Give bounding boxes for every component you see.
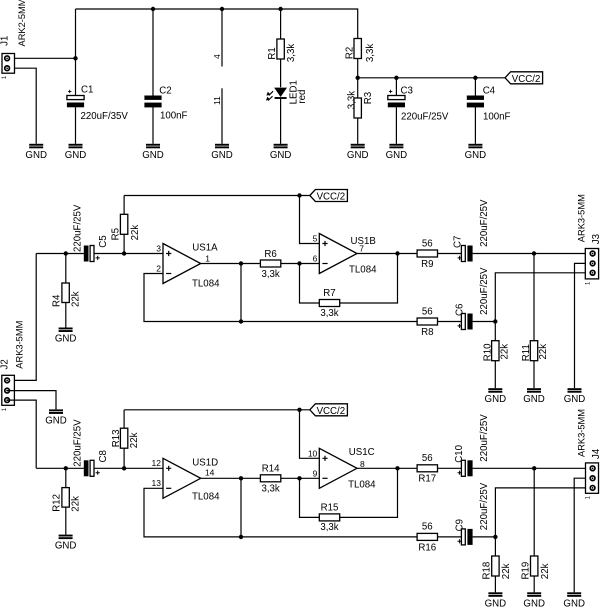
svg-text:R15: R15 [321,503,339,514]
svg-text:22k: 22k [500,344,511,360]
svg-text:C4: C4 [483,86,496,97]
svg-text:R17: R17 [418,474,436,485]
svg-text:220uF/35V: 220uF/35V [81,111,129,122]
svg-text:VCC/2: VCC/2 [512,74,541,85]
svg-text:GND: GND [65,150,87,161]
svg-text:VCC/2: VCC/2 [317,406,346,417]
svg-text:GND: GND [270,150,292,161]
svg-text:GND: GND [564,394,586,405]
svg-text:GND: GND [465,150,487,161]
svg-text:C3: C3 [401,86,413,97]
svg-text:R10: R10 [482,343,493,361]
svg-text:R19: R19 [521,562,532,580]
svg-text:100nF: 100nF [160,111,188,122]
svg-text:R8: R8 [421,327,433,338]
svg-text:220uF/25V: 220uF/25V [479,414,490,462]
svg-text:220uF/25V: 220uF/25V [72,419,83,467]
svg-text:220uF/25V: 220uF/25V [72,204,83,252]
svg-text:TL084: TL084 [349,265,377,276]
svg-text:3,3k: 3,3k [365,44,376,62]
svg-text:R12: R12 [52,494,63,512]
svg-text:R13: R13 [111,429,122,447]
svg-text:22k: 22k [538,344,549,360]
svg-text:56: 56 [422,453,433,464]
svg-text:220uF/25V: 220uF/25V [479,482,490,530]
svg-text:R18: R18 [481,562,492,580]
svg-text:3,3k: 3,3k [261,269,279,280]
svg-text:J3: J3 [591,234,600,244]
svg-text:TL084: TL084 [348,480,376,491]
svg-text:R3: R3 [363,92,374,104]
svg-text:R9: R9 [421,259,433,270]
svg-text:GND: GND [55,334,77,345]
svg-text:56: 56 [422,238,433,249]
svg-text:3: 3 [156,243,161,253]
svg-text:2: 2 [156,263,161,273]
svg-text:J1: J1 [0,36,10,46]
svg-text:R16: R16 [418,542,436,553]
svg-text:R5: R5 [111,228,122,240]
svg-text:C10: C10 [454,444,465,462]
svg-text:8: 8 [360,459,365,469]
svg-text:22k: 22k [540,563,551,579]
svg-text:56: 56 [422,306,433,317]
svg-text:220uF/25V: 220uF/25V [479,267,490,315]
svg-text:J2: J2 [0,359,10,369]
svg-text:R7: R7 [323,288,335,299]
svg-text:ARK2-5MM: ARK2-5MM [17,0,27,47]
svg-text:220uF/25V: 220uF/25V [401,112,449,123]
svg-text:GND: GND [55,541,77,552]
svg-text:9: 9 [313,469,318,479]
svg-text:GND: GND [25,150,47,161]
svg-text:ARK3-5MM: ARK3-5MM [14,321,24,369]
svg-text:R4: R4 [52,294,63,307]
svg-text:VCC/2: VCC/2 [317,192,346,203]
svg-text:GND: GND [485,394,507,405]
svg-text:C7: C7 [453,236,464,248]
svg-text:4: 4 [212,54,222,59]
svg-text:ARK3-5MM: ARK3-5MM [576,194,586,242]
svg-text:R11: R11 [521,344,532,361]
svg-text:12: 12 [152,458,162,468]
svg-text:3,3k: 3,3k [320,308,338,319]
svg-text:22k: 22k [130,225,141,241]
svg-text:1: 1 [205,254,210,264]
svg-text:TL084: TL084 [192,491,220,502]
svg-text:22k: 22k [501,563,512,579]
svg-text:GND: GND [347,150,369,161]
svg-text:11: 11 [212,96,222,105]
svg-text:GND: GND [386,150,408,161]
svg-text:56: 56 [422,522,433,533]
svg-text:220uF/25V: 220uF/25V [479,199,490,247]
svg-text:C1: C1 [81,85,93,96]
svg-text:C5: C5 [98,235,109,247]
svg-text:GND: GND [142,150,164,161]
svg-text:GND: GND [485,598,507,609]
svg-text:C2: C2 [159,86,171,97]
svg-text:C8: C8 [98,450,109,462]
svg-text:R6: R6 [264,249,276,260]
svg-text:GND: GND [45,415,67,426]
svg-text:ARK3-5MM: ARK3-5MM [576,409,586,457]
svg-text:3,3k: 3,3k [286,44,297,62]
svg-text:22k: 22k [71,496,82,512]
svg-text:R14: R14 [262,464,280,475]
svg-text:100nF: 100nF [483,112,511,123]
svg-text:22k: 22k [70,291,81,307]
svg-text:red: red [297,90,308,104]
svg-text:US1C: US1C [349,447,375,458]
svg-text:J4: J4 [591,448,600,459]
svg-text:22k: 22k [129,432,140,448]
svg-text:7: 7 [359,244,364,254]
svg-text:C6: C6 [455,304,466,316]
svg-text:TL084: TL084 [192,278,220,289]
svg-text:3,3k: 3,3k [347,91,358,109]
svg-text:5: 5 [313,233,318,243]
svg-text:US1A: US1A [192,243,218,254]
svg-text:GND: GND [523,394,545,405]
svg-text:GND: GND [211,150,233,161]
svg-text:14: 14 [205,468,215,478]
svg-text:6: 6 [313,253,318,263]
svg-text:3,3k: 3,3k [320,522,338,533]
svg-text:R1: R1 [267,47,278,59]
svg-text:C9: C9 [455,519,466,531]
svg-text:GND: GND [523,598,545,609]
svg-text:13: 13 [152,478,162,488]
svg-text:10: 10 [308,449,318,459]
svg-text:GND: GND [563,598,585,609]
svg-text:R2: R2 [345,47,356,59]
svg-text:3,3k: 3,3k [261,484,279,495]
